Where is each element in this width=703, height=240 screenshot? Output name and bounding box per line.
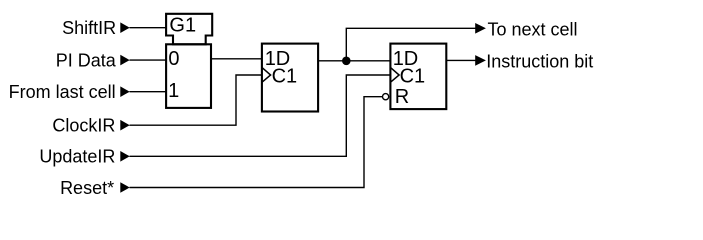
svg-text:0: 0 xyxy=(168,48,179,70)
svg-text:C1: C1 xyxy=(272,65,298,87)
svg-text:UpdateIR: UpdateIR xyxy=(39,147,115,167)
svg-text:1: 1 xyxy=(168,80,179,102)
svg-text:G1: G1 xyxy=(169,15,196,37)
svg-text:ClockIR: ClockIR xyxy=(52,116,115,136)
svg-text:From last cell: From last cell xyxy=(9,82,116,102)
svg-text:Instruction bit: Instruction bit xyxy=(486,52,593,72)
svg-text:PI Data: PI Data xyxy=(56,50,117,70)
svg-text:ShiftIR: ShiftIR xyxy=(62,18,116,38)
svg-text:Reset*: Reset* xyxy=(60,178,114,198)
svg-text:C1: C1 xyxy=(400,65,426,87)
svg-text:To next cell: To next cell xyxy=(488,19,578,39)
svg-text:R: R xyxy=(395,86,409,108)
